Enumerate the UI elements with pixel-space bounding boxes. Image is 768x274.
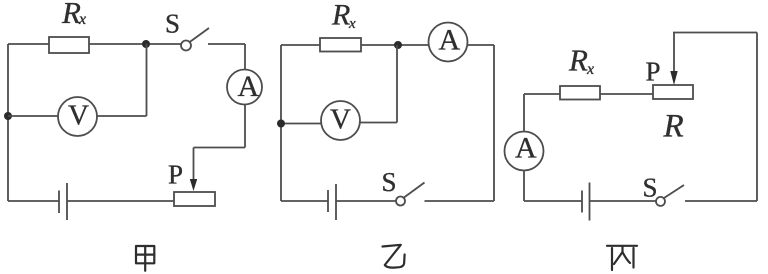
- switch S pivot (丙): [656, 197, 665, 206]
- ammeter A2 (乙): [429, 23, 468, 62]
- wire: 乙 left vertical: [280, 45, 282, 201]
- wire: 甲 top right segment: [208, 43, 245, 45]
- switch S lever (乙): [404, 183, 425, 198]
- svg-text:x: x: [78, 11, 86, 28]
- label Rx (circuit 丙): [568, 43, 594, 79]
- battery (甲): long plate: [66, 183, 68, 220]
- svg-text:P: P: [646, 57, 661, 87]
- svg-text:R: R: [331, 0, 350, 32]
- wire: 乙 right vertical: [493, 45, 495, 201]
- wire: 丙 right vertical: [756, 33, 758, 202]
- battery (乙): long plate: [335, 184, 337, 220]
- battery (丙): short plate: [581, 191, 583, 213]
- svg-text:x: x: [586, 61, 594, 78]
- resistor Rx (甲): [49, 37, 89, 53]
- voltmeter V2 (乙): [321, 101, 360, 140]
- svg-text:S: S: [643, 173, 658, 203]
- node: voltmeter tap on left wire (乙): [277, 120, 285, 128]
- label 甲: [136, 246, 154, 271]
- wire: 乙 bottom middle segment: [336, 200, 396, 202]
- svg-text:R: R: [568, 43, 588, 78]
- battery (乙): short plate: [327, 190, 329, 212]
- label 丙: [607, 246, 637, 270]
- switch S pivot (甲): [181, 41, 191, 51]
- ammeter A3 (丙): [505, 131, 544, 170]
- wire: 乙 voltmeter branch right: [360, 122, 397, 124]
- rheostat P wiper arrow (甲): [190, 148, 197, 192]
- wire: 乙 voltmeter branch riser: [396, 45, 398, 123]
- svg-text:S: S: [165, 9, 180, 39]
- label Rx (circuit 乙): [331, 0, 356, 32]
- svg-text:A: A: [515, 131, 537, 164]
- rheostat R wiper arrow (丙): [670, 33, 677, 86]
- wire: 甲 bottom right segment to rheostat: [67, 200, 174, 202]
- wire: 甲 below ammeter: [244, 105, 246, 148]
- wire: 丙 left horizontal: [524, 93, 560, 95]
- switch S lever (丙): [664, 185, 684, 198]
- wire: 丙 bottom left segment: [524, 200, 582, 202]
- wire: 乙 bottom right segment: [425, 200, 495, 202]
- wire: 丙 left vertical upper: [523, 94, 525, 132]
- wire: 甲 voltmeter branch riser: [146, 44, 148, 116]
- battery (丙): long plate: [589, 183, 591, 221]
- wire: 丙 bottom right segment: [685, 200, 757, 202]
- wire: 乙 bottom left segment: [281, 200, 328, 202]
- wire: 甲 voltmeter branch right: [97, 115, 147, 117]
- battery (甲): short plate: [58, 191, 60, 214]
- wire: 乙 top middle segment: [361, 44, 429, 46]
- wire: 丙 bottom middle segment: [590, 200, 657, 202]
- wire: 甲 top left segment: [8, 43, 49, 45]
- node: junction of voltmeter branch and switch (甲): [142, 40, 150, 48]
- resistor Rx (丙): [560, 86, 600, 100]
- svg-text:A: A: [439, 23, 461, 56]
- wire: 甲 bottom left segment: [8, 200, 59, 202]
- svg-text:R: R: [61, 0, 81, 30]
- svg-text:V: V: [68, 100, 89, 132]
- label Rx (circuit 甲): [61, 0, 86, 30]
- wire: 甲 left vertical: [7, 44, 9, 201]
- wire: 丙 top horizontal: [673, 32, 757, 34]
- svg-text:S: S: [382, 167, 397, 197]
- rheostat R body (丙): [653, 85, 693, 99]
- wire: 乙 top left segment: [281, 44, 320, 46]
- wire: 丙 left vertical lower: [523, 171, 525, 202]
- label 乙: [383, 245, 405, 268]
- svg-text:P: P: [168, 160, 183, 190]
- svg-text:A: A: [238, 70, 260, 103]
- wire: 甲 right vertical to ammeter: [244, 44, 246, 70]
- node: junction above voltmeter riser (乙): [394, 41, 402, 49]
- wire: 甲 horizontal to rheostat wiper: [194, 147, 246, 149]
- svg-text:x: x: [348, 16, 356, 32]
- node: voltmeter tap on left wire (甲): [4, 112, 12, 120]
- wire: 丙 middle horizontal: [600, 93, 653, 95]
- wire: 乙 top right segment: [467, 44, 494, 46]
- wire: 甲 top middle segment: [89, 43, 181, 45]
- wire: 乙 voltmeter branch left: [281, 123, 321, 125]
- svg-text:R: R: [663, 109, 684, 145]
- wire: 甲 voltmeter branch left: [8, 115, 58, 117]
- resistor Rx (乙): [320, 38, 361, 52]
- switch S lever (甲): [190, 28, 209, 42]
- voltmeter V1 (甲): [58, 97, 97, 136]
- svg-text:V: V: [330, 104, 351, 136]
- rheostat body (甲): [174, 192, 215, 206]
- switch S pivot (乙): [396, 197, 405, 206]
- ammeter A1 (甲): [227, 70, 262, 105]
